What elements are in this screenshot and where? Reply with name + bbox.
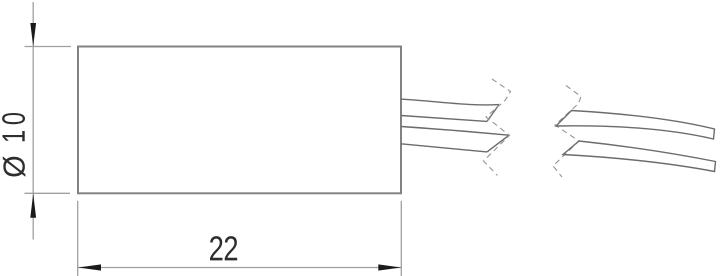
- wire B bottom edge: [401, 144, 487, 152]
- dimension line (vertical, diameter): [32, 2, 34, 240]
- break line left (dashed zigzag): [484, 79, 511, 176]
- wire A end cap: [487, 105, 499, 122]
- label diameter 10: [2, 113, 25, 177]
- module body outline: [78, 47, 401, 194]
- wire C outline (upper right lead): [556, 111, 715, 140]
- wire A top edge: [401, 99, 499, 105]
- arrowhead top (points down): [30, 23, 36, 46]
- dimension line (horizontal, length): [78, 267, 401, 269]
- arrowhead right (points right): [378, 264, 401, 270]
- break line right (dashed zigzag): [553, 86, 581, 178]
- arrowhead left (points left): [78, 264, 101, 270]
- extension line bottom (diameter): [25, 192, 71, 194]
- wire D outline (lower right lead): [563, 141, 716, 172]
- extension line left (length): [77, 201, 79, 276]
- extension line top (diameter): [25, 46, 72, 48]
- label length 22: [210, 236, 237, 260]
- arrowhead bottom (points up): [30, 194, 36, 218]
- wire A bottom edge: [401, 116, 487, 122]
- wire B end cap: [487, 135, 509, 152]
- extension line right (length): [400, 201, 402, 276]
- wire B top edge: [401, 127, 509, 136]
